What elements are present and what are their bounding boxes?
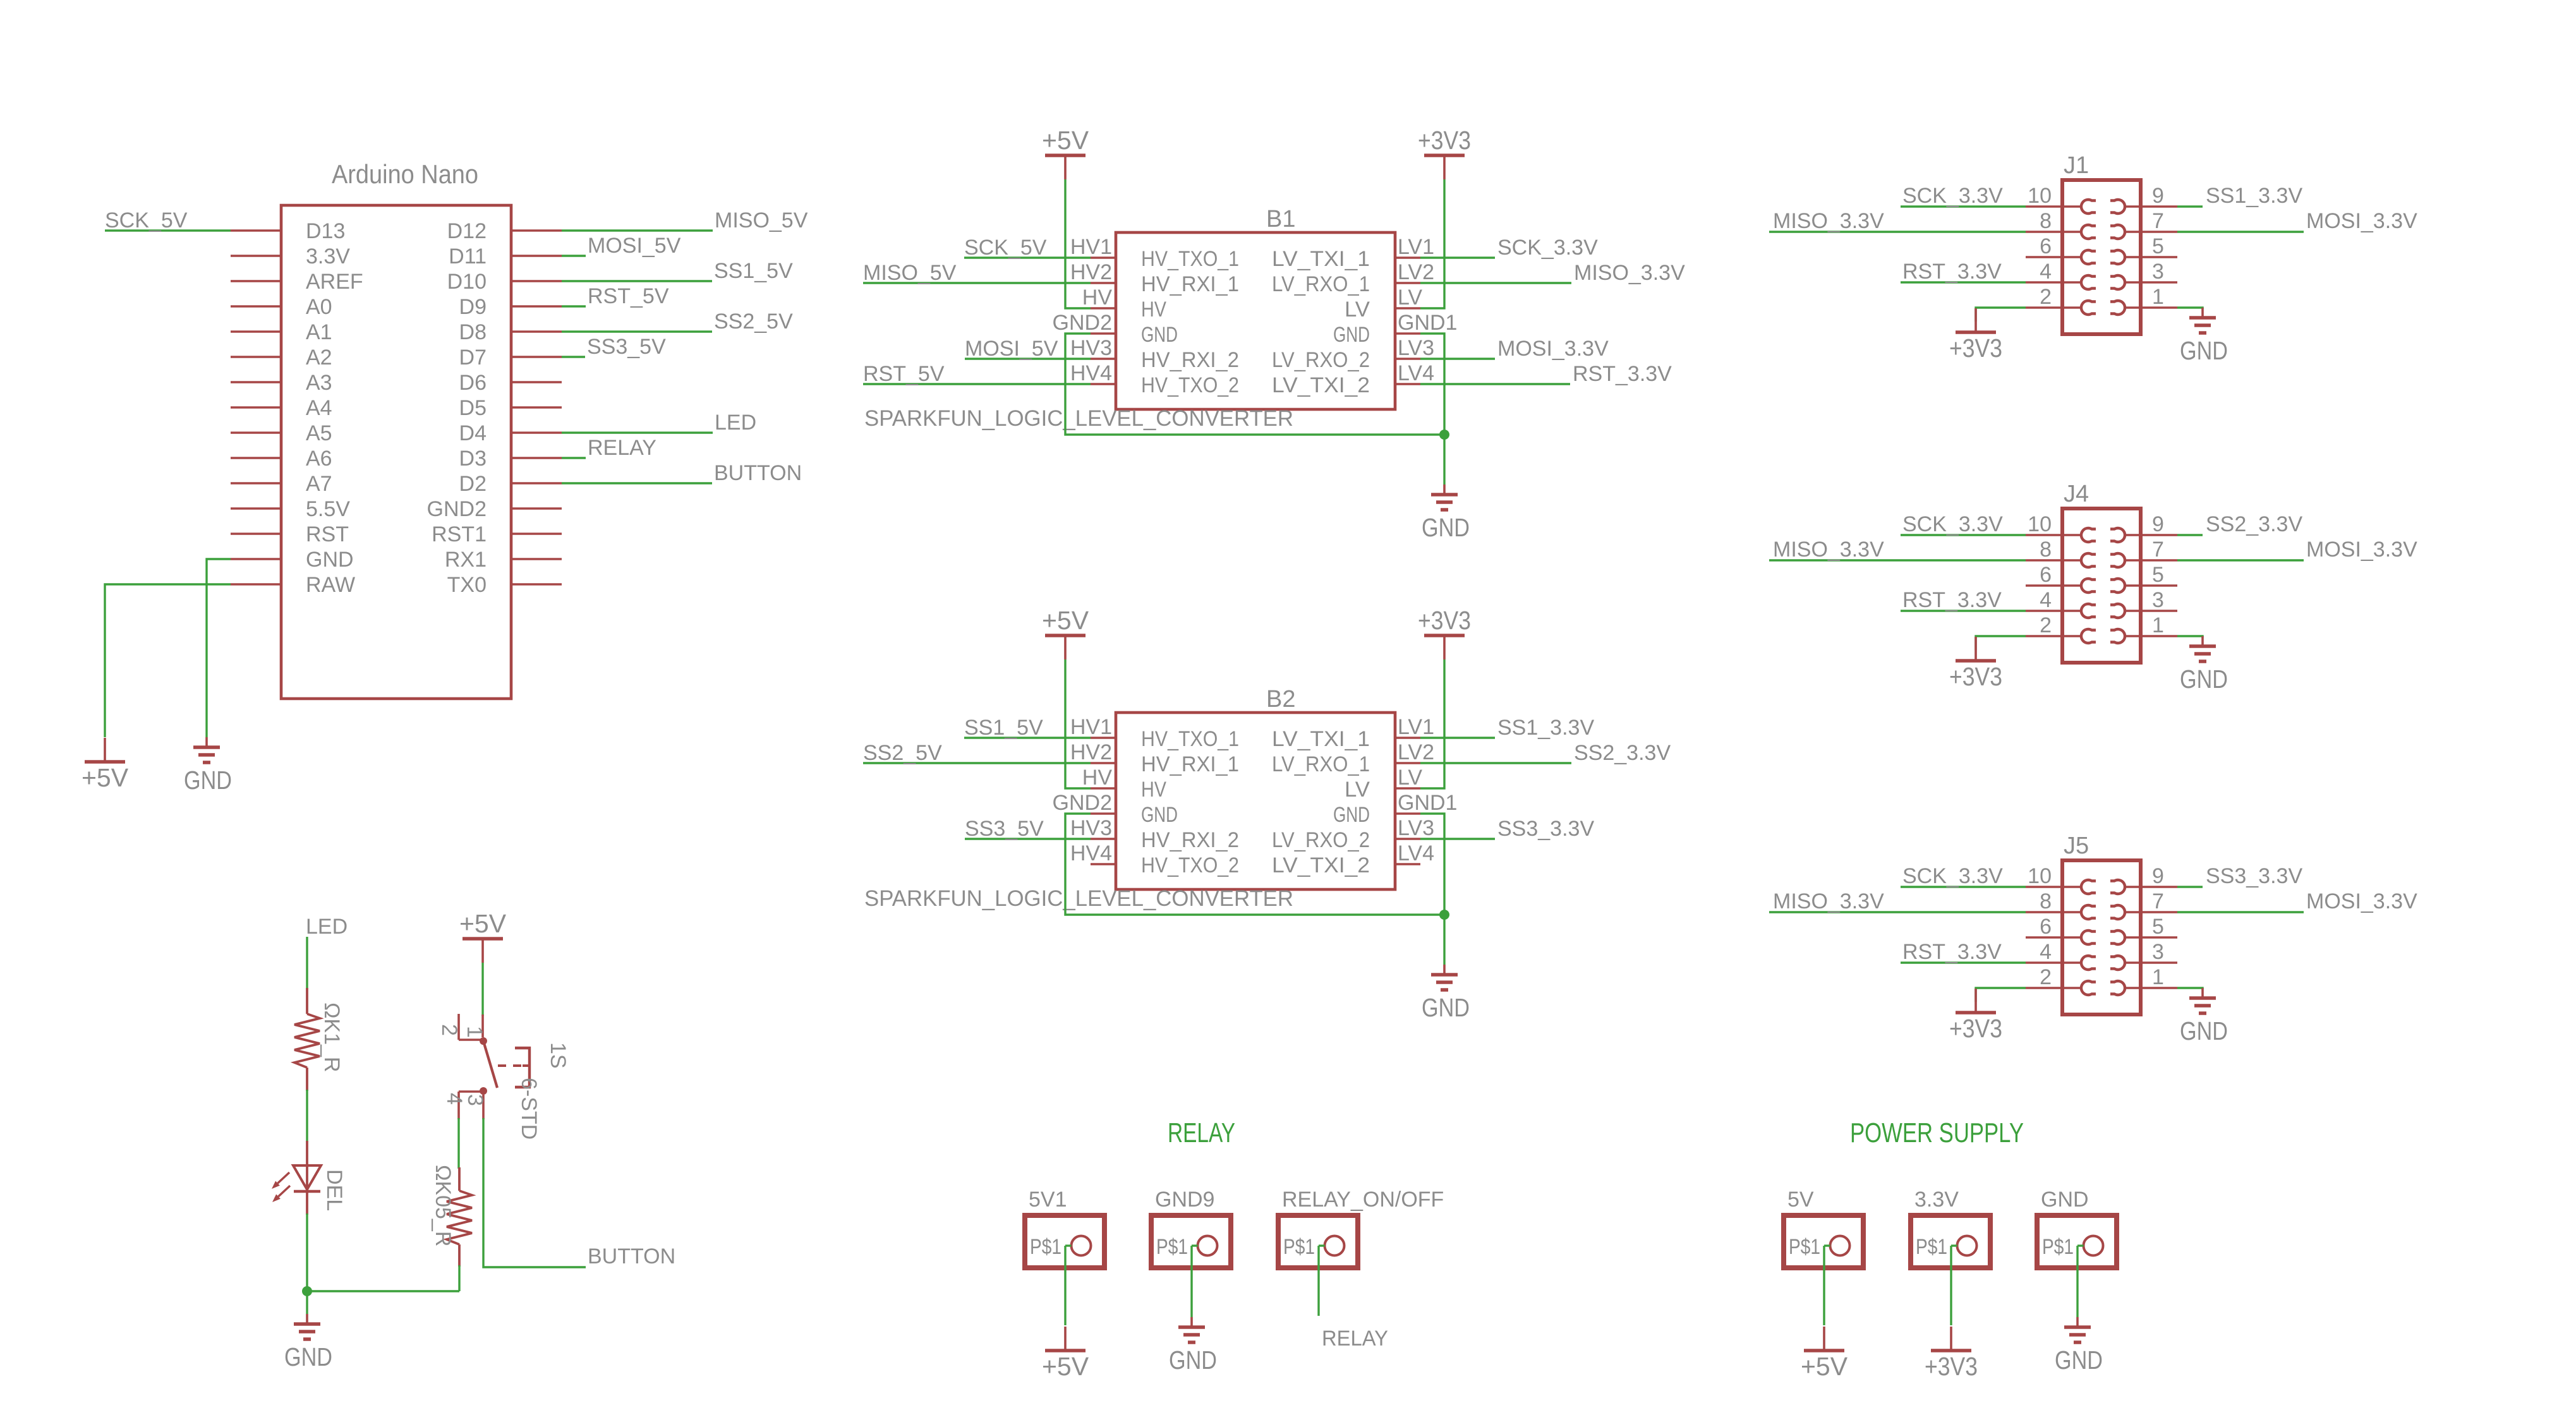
svg-text:7: 7 [2152,538,2164,562]
svg-text:5: 5 [2152,915,2164,939]
svg-text:GND: GND [2041,1188,2089,1212]
svg-text:D12: D12 [447,219,487,243]
svg-text:3.3V: 3.3V [306,244,350,268]
svg-text:D6: D6 [459,371,487,395]
svg-text:6: 6 [2040,915,2052,939]
svg-text:GND: GND [2180,336,2228,365]
svg-text:3: 3 [2152,260,2164,284]
svg-text:3: 3 [2152,940,2164,964]
svg-text:RST1: RST1 [432,522,487,546]
svg-text:+3V3: +3V3 [1949,1014,2002,1043]
svg-text:6-STD: 6-STD [517,1078,541,1140]
svg-text:SCK_5V: SCK_5V [105,208,188,232]
svg-text:SS2_5V: SS2_5V [863,741,942,765]
svg-text:LV: LV [1345,298,1370,322]
svg-text:7: 7 [2152,209,2164,233]
svg-text:A6: A6 [306,447,332,471]
svg-text:GND: GND [1333,803,1370,827]
svg-text:4: 4 [2040,588,2052,612]
svg-text:4: 4 [2040,940,2052,964]
svg-text:A4: A4 [306,396,332,420]
svg-text:8: 8 [2040,538,2052,562]
svg-text:HV_TXO_2: HV_TXO_2 [1141,373,1239,397]
svg-text:D9: D9 [459,295,487,319]
svg-text:2: 2 [437,1024,461,1036]
svg-text:SS2_5V: SS2_5V [714,310,793,334]
svg-text:LV_TXI_1: LV_TXI_1 [1272,247,1370,271]
svg-text:MOSI_5V: MOSI_5V [588,234,681,258]
svg-text:MISO_3.3V: MISO_3.3V [1773,209,1884,233]
svg-text:A2: A2 [306,346,332,370]
svg-text:MOSI_3.3V: MOSI_3.3V [2306,889,2417,913]
svg-text:HV3: HV3 [1070,336,1112,360]
svg-text:MOSI_5V: MOSI_5V [965,337,1058,361]
svg-text:SS1_3.3V: SS1_3.3V [2206,184,2302,208]
svg-text:4: 4 [442,1093,466,1105]
svg-text:HV4: HV4 [1070,841,1112,865]
svg-text:LV_RXO_1: LV_RXO_1 [1272,272,1370,296]
svg-text:GND: GND [284,1342,332,1371]
svg-text:RST_5V: RST_5V [863,362,945,386]
svg-text:GND: GND [306,548,354,572]
svg-text:HV_TXO_2: HV_TXO_2 [1141,853,1239,877]
svg-text:SS1_3.3V: SS1_3.3V [1497,716,1594,740]
svg-text:GND: GND [1422,513,1470,542]
svg-text:1: 1 [2152,285,2164,309]
svg-text:5.5V: 5.5V [306,497,350,521]
svg-text:LV_RXO_2: LV_RXO_2 [1272,828,1370,852]
svg-text:D5: D5 [459,396,487,420]
svg-text:MOSI_3.3V: MOSI_3.3V [2306,538,2417,562]
svg-text:GND: GND [2055,1346,2103,1375]
svg-text:SS2_3.3V: SS2_3.3V [2206,512,2302,536]
svg-text:3.3V: 3.3V [1914,1188,1959,1212]
svg-text:D10: D10 [447,270,487,294]
svg-text:B1: B1 [1266,206,1295,232]
svg-text:J4: J4 [2064,481,2089,507]
svg-text:9: 9 [2152,184,2164,208]
svg-text:RST_3.3V: RST_3.3V [1902,260,2002,284]
svg-text:RST: RST [306,522,349,546]
svg-text:3: 3 [2152,588,2164,612]
svg-text:1S: 1S [546,1042,570,1069]
svg-text:LV1: LV1 [1398,235,1434,259]
svg-text:AREF: AREF [306,270,363,294]
svg-text:LV_TXI_1: LV_TXI_1 [1272,727,1370,751]
svg-text:HV_RXI_1: HV_RXI_1 [1141,752,1239,776]
svg-text:GND2: GND2 [427,497,487,521]
svg-text:LV_RXO_1: LV_RXO_1 [1272,752,1370,776]
svg-text:BUTTON: BUTTON [588,1244,675,1268]
svg-text:9: 9 [2152,512,2164,536]
svg-text:Arduino Nano: Arduino Nano [332,159,478,189]
svg-text:SCK_5V: SCK_5V [964,236,1047,260]
svg-text:J1: J1 [2064,152,2089,179]
svg-text:+3V3: +3V3 [1949,662,2002,691]
svg-text:P$1: P$1 [2042,1235,2074,1259]
svg-text:LV2: LV2 [1398,260,1434,284]
svg-text:ΩK05_R: ΩK05_R [431,1165,455,1246]
svg-text:8: 8 [2040,889,2052,913]
svg-text:BUTTON: BUTTON [714,461,802,485]
svg-text:DEL: DEL [322,1169,346,1211]
svg-text:9: 9 [2152,864,2164,888]
svg-text:LV1: LV1 [1398,715,1434,739]
svg-text:MOSI_3.3V: MOSI_3.3V [2306,209,2417,233]
svg-text:10: 10 [2028,512,2052,536]
svg-text:+5V: +5V [459,909,507,938]
svg-text:SS3_5V: SS3_5V [587,335,666,359]
svg-text:5V: 5V [1787,1188,1814,1212]
svg-text:RST_3.3V: RST_3.3V [1902,940,2002,964]
svg-text:HV1: HV1 [1070,235,1112,259]
svg-text:SS3_5V: SS3_5V [965,817,1044,841]
svg-text:2: 2 [2040,965,2052,989]
svg-text:HV_TXO_1: HV_TXO_1 [1141,727,1239,751]
svg-text:+5V: +5V [1042,126,1089,155]
svg-text:5V1: 5V1 [1029,1188,1067,1212]
svg-text:HV: HV [1082,766,1113,790]
svg-text:RST_3.3V: RST_3.3V [1902,588,2002,612]
svg-text:MISO_5V: MISO_5V [715,208,808,232]
svg-text:SPARKFUN_LOGIC_LEVEL_CONVERTER: SPARKFUN_LOGIC_LEVEL_CONVERTER [864,406,1293,431]
svg-text:MISO_5V: MISO_5V [863,261,957,285]
svg-text:RELAY: RELAY [1322,1327,1388,1351]
svg-text:GND: GND [1333,323,1370,347]
svg-text:D8: D8 [459,320,487,344]
svg-text:+5V: +5V [1042,1352,1089,1381]
svg-text:D13: D13 [306,219,345,243]
svg-text:8: 8 [2040,209,2052,233]
svg-text:HV: HV [1141,298,1166,322]
svg-text:GND9: GND9 [1155,1188,1214,1212]
svg-text:RELAY_ON/OFF: RELAY_ON/OFF [1282,1188,1444,1212]
svg-text:HV: HV [1141,778,1166,802]
svg-text:SS2_3.3V: SS2_3.3V [1574,741,1671,765]
svg-text:MOSI_3.3V: MOSI_3.3V [1497,337,1609,361]
svg-text:HV1: HV1 [1070,715,1112,739]
svg-text:RST_3.3V: RST_3.3V [1573,362,1672,386]
svg-text:10: 10 [2028,864,2052,888]
svg-text:LV3: LV3 [1398,336,1434,360]
svg-text:6: 6 [2040,234,2052,258]
svg-text:7: 7 [2152,889,2164,913]
svg-text:+5V: +5V [82,763,129,792]
svg-text:2: 2 [2040,613,2052,637]
svg-text:SCK_3.3V: SCK_3.3V [1497,236,1598,260]
svg-text:HV2: HV2 [1070,740,1112,764]
svg-text:SS1_5V: SS1_5V [964,716,1043,740]
svg-text:P$1: P$1 [1789,1235,1820,1259]
svg-text:+3V3: +3V3 [1949,334,2002,363]
svg-text:LV: LV [1398,766,1422,790]
svg-text:HV_RXI_2: HV_RXI_2 [1141,828,1239,852]
svg-text:3: 3 [463,1094,487,1106]
svg-text:GND1: GND1 [1398,791,1457,815]
svg-text:D2: D2 [459,472,487,496]
svg-text:ΩK1_R: ΩK1_R [320,1003,344,1072]
svg-text:MISO_3.3V: MISO_3.3V [1773,538,1884,562]
svg-text:1: 1 [463,1026,487,1038]
svg-text:D3: D3 [459,447,487,471]
svg-text:A0: A0 [306,295,332,319]
svg-text:GND1: GND1 [1398,311,1457,335]
svg-text:D4: D4 [459,421,487,445]
svg-text:SCK_3.3V: SCK_3.3V [1902,184,2003,208]
svg-text:RELAY: RELAY [588,436,656,460]
svg-text:J5: J5 [2064,833,2089,859]
svg-text:RELAY: RELAY [1168,1117,1235,1148]
svg-text:GND: GND [184,766,232,795]
svg-text:HV_RXI_2: HV_RXI_2 [1141,348,1239,372]
svg-text:LV_TXI_2: LV_TXI_2 [1272,373,1370,397]
svg-text:+5V: +5V [1801,1352,1848,1381]
svg-text:LV: LV [1398,286,1422,310]
svg-text:LED: LED [715,411,756,435]
svg-text:A7: A7 [306,472,332,496]
svg-text:HV_TXO_1: HV_TXO_1 [1141,247,1239,271]
svg-text:+3V3: +3V3 [1418,606,1471,635]
svg-text:GND: GND [1169,1346,1217,1375]
svg-text:LED: LED [306,915,348,939]
svg-text:HV_RXI_1: HV_RXI_1 [1141,272,1239,296]
svg-text:P$1: P$1 [1156,1235,1188,1259]
svg-text:RX1: RX1 [445,548,487,572]
svg-text:HV2: HV2 [1070,260,1112,284]
svg-text:LV3: LV3 [1398,816,1434,840]
svg-text:LV4: LV4 [1398,361,1434,385]
svg-text:GND: GND [1141,323,1178,347]
svg-text:RAW: RAW [306,573,355,597]
svg-text:HV3: HV3 [1070,816,1112,840]
svg-text:D11: D11 [449,244,487,268]
svg-text:GND2: GND2 [1053,311,1112,335]
svg-text:SS1_5V: SS1_5V [714,259,793,283]
svg-text:6: 6 [2040,563,2052,587]
svg-text:SPARKFUN_LOGIC_LEVEL_CONVERTER: SPARKFUN_LOGIC_LEVEL_CONVERTER [864,886,1293,911]
svg-text:TX0: TX0 [447,573,487,597]
svg-text:A3: A3 [306,371,332,395]
svg-text:LV2: LV2 [1398,740,1434,764]
svg-text:LV_RXO_2: LV_RXO_2 [1272,348,1370,372]
svg-text:+5V: +5V [1042,606,1089,635]
svg-text:MISO_3.3V: MISO_3.3V [1574,261,1685,285]
svg-text:MISO_3.3V: MISO_3.3V [1773,889,1884,913]
svg-text:A5: A5 [306,421,332,445]
svg-text:GND: GND [1141,803,1178,827]
svg-text:+3V3: +3V3 [1418,126,1471,155]
svg-text:2: 2 [2040,285,2052,309]
svg-text:SS3_3.3V: SS3_3.3V [2206,864,2302,888]
svg-text:LV4: LV4 [1398,841,1434,865]
svg-text:HV: HV [1082,286,1113,310]
svg-text:10: 10 [2028,184,2052,208]
svg-text:B2: B2 [1266,686,1295,713]
svg-text:LV_TXI_2: LV_TXI_2 [1272,853,1370,877]
svg-text:D7: D7 [459,346,487,370]
svg-text:5: 5 [2152,563,2164,587]
svg-text:P$1: P$1 [1283,1235,1315,1259]
svg-text:4: 4 [2040,260,2052,284]
svg-text:SS3_3.3V: SS3_3.3V [1497,817,1594,841]
svg-text:RST_5V: RST_5V [588,284,669,308]
svg-text:SCK_3.3V: SCK_3.3V [1902,864,2003,888]
svg-text:1: 1 [2152,965,2164,989]
svg-text:GND: GND [1422,993,1470,1022]
svg-text:A1: A1 [306,320,332,344]
svg-text:1: 1 [2152,613,2164,637]
svg-text:HV4: HV4 [1070,361,1112,385]
svg-text:+3V3: +3V3 [1925,1352,1978,1381]
svg-text:P$1: P$1 [1030,1235,1061,1259]
svg-text:GND: GND [2180,1016,2228,1045]
svg-text:LV: LV [1345,778,1370,802]
svg-text:GND: GND [2180,665,2228,694]
svg-text:POWER SUPPLY: POWER SUPPLY [1850,1117,2024,1148]
svg-text:5: 5 [2152,234,2164,258]
svg-text:SCK_3.3V: SCK_3.3V [1902,512,2003,536]
svg-text:GND2: GND2 [1053,791,1112,815]
svg-text:P$1: P$1 [1916,1235,1947,1259]
